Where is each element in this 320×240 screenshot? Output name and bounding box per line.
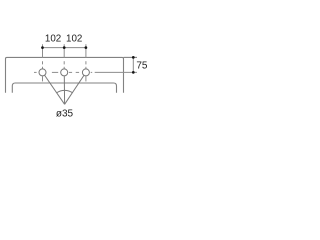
svg-text:ø35: ø35: [56, 109, 74, 120]
svg-text:102: 102: [66, 33, 82, 44]
svg-text:102: 102: [45, 33, 61, 44]
svg-text:75: 75: [136, 61, 148, 72]
